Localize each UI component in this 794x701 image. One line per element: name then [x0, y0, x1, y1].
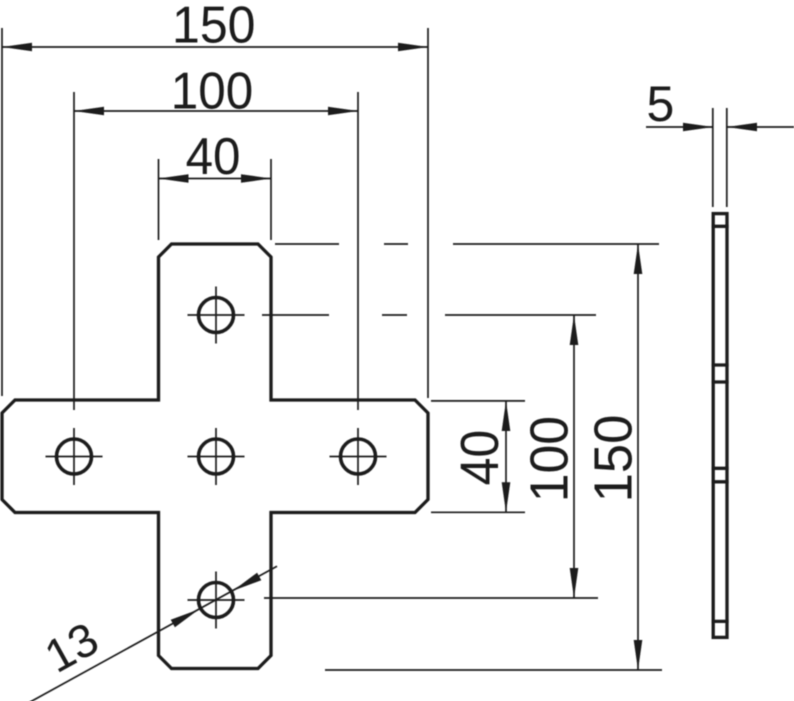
svg-text:150: 150	[172, 0, 256, 55]
svg-text:40: 40	[450, 430, 510, 486]
svg-text:5: 5	[647, 76, 675, 132]
svg-text:100: 100	[171, 63, 253, 121]
svg-text:100: 100	[519, 416, 579, 502]
svg-text:150: 150	[584, 415, 644, 503]
svg-text:40: 40	[186, 128, 241, 186]
